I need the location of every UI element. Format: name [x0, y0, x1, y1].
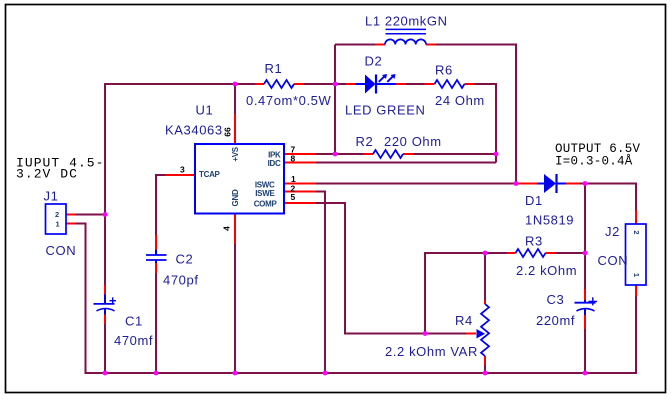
capacitor C1 bottom arc — [97, 309, 115, 311]
wire: R3 right to C3 column — [555, 252, 585, 254]
U1 pin8 stub — [284, 162, 316, 164]
resistor R2 zigzag — [373, 150, 403, 158]
node dot bus C2 — [154, 371, 159, 376]
svg-text:3: 3 — [180, 165, 185, 175]
svg-text:220mf: 220mf — [536, 313, 575, 328]
svg-text:D2: D2 — [365, 54, 383, 69]
svg-text:2.2 kOhm VAR: 2.2 kOhm VAR — [385, 344, 478, 359]
svg-text:IDC: IDC — [268, 159, 281, 168]
wire: top bus left vertical (node SW top) — [334, 45, 336, 155]
capacitor C3 top plate — [575, 302, 596, 304]
svg-text:C3: C3 — [547, 292, 565, 307]
R4 wiper arrow — [477, 329, 486, 339]
svg-text:R2: R2 — [356, 134, 374, 149]
capacitor C1 top plate — [94, 303, 115, 305]
LED D2 triangle — [365, 75, 376, 94]
J2 stubs — [635, 210, 637, 296]
node dot wiper row — [423, 331, 428, 336]
R6 stubs — [425, 83, 475, 85]
wire: R4 top connection — [484, 253, 486, 300]
svg-text:0.47om*0.5W: 0.47om*0.5W — [246, 93, 331, 108]
svg-text:KA34063: KA34063 — [165, 123, 223, 138]
connector J1 box — [46, 204, 67, 234]
R1 stubs — [255, 83, 304, 85]
inductor L1 coil — [385, 39, 426, 44]
svg-text:I=0.3-0.4Å: I=0.3-0.4Å — [555, 154, 633, 169]
wire: R1 row left segment + left vertical bus x=105 — [105, 84, 255, 285]
svg-text:2: 2 — [55, 210, 59, 219]
LED D2 cathode lead — [377, 83, 396, 85]
wire: TCAP pin3 to C2 column — [156, 175, 165, 235]
node dot bus pin2 — [323, 371, 328, 376]
wire: R6 right, corner down to pin8 row — [475, 84, 497, 163]
LED D2 cathode bar — [375, 75, 377, 94]
diode D1 triangle — [544, 174, 556, 193]
wire: pin8 IDC row — [316, 162, 496, 164]
svg-text:1: 1 — [632, 273, 641, 277]
U1 pin4 stub — [234, 214, 236, 245]
U1 pin3 stub — [165, 174, 195, 176]
diode D1 cathode lead — [557, 183, 566, 185]
wire: C3 column from D1 node — [584, 184, 586, 290]
wire: D1 cathode node to J2 corner — [580, 184, 636, 211]
wire: pin7/R2 row — [316, 153, 363, 155]
wire: R1 to D2 segment — [304, 83, 346, 85]
svg-text:ISWE: ISWE — [255, 189, 275, 198]
wire: J1 pin2 to left bus — [76, 214, 106, 216]
svg-text:C1: C1 — [125, 314, 143, 329]
wire: D2 to R6 segment — [406, 83, 425, 85]
node dot bus R4 — [483, 371, 488, 376]
svg-text:D1: D1 — [525, 193, 543, 208]
svg-text:R1: R1 — [265, 61, 283, 76]
wire: R4 bottom to bus — [484, 365, 486, 373]
connector J2 box — [626, 224, 647, 285]
node dot R1-pin6 — [233, 82, 238, 87]
svg-text:4: 4 — [222, 226, 232, 231]
node dot bus C1 — [103, 371, 108, 376]
wire: pin2 ISWE row down to bottom bus — [316, 192, 325, 374]
J1 stubs — [66, 215, 76, 224]
svg-text:1: 1 — [56, 220, 60, 229]
resistor R4 vertical zigzag — [481, 304, 489, 356]
U1 pin6 stub — [234, 114, 236, 144]
node dot J1 pin2 — [103, 212, 108, 217]
LED D2 anode lead — [356, 83, 366, 85]
wire: R2 right to x496 — [413, 153, 496, 155]
svg-text:24 Ohm: 24 Ohm — [435, 93, 485, 108]
resistor R1 zigzag — [264, 80, 294, 88]
diode D1 cathode bar — [555, 174, 557, 193]
capacitor C1 top lead — [104, 295, 106, 304]
node dot bus GND — [233, 371, 238, 376]
capacitor C2 plates — [146, 255, 167, 260]
svg-text:+VS: +VS — [231, 146, 240, 161]
node dot R1-D2 — [333, 82, 338, 87]
capacitor C3 top lead — [584, 300, 586, 302]
node dot bus C3 — [583, 371, 588, 376]
node dot pin7-R2 — [333, 152, 338, 157]
U1 pin5 stub — [284, 202, 316, 204]
svg-text:R3: R3 — [525, 234, 543, 249]
node dot D1 cathode — [583, 181, 588, 186]
wire: J1 pin1 down and bottom bus to J2 — [76, 224, 637, 374]
capacitor C3 bottom arc — [577, 309, 595, 311]
capacitor C1 bottom lead — [104, 309, 106, 315]
D2 stubs — [346, 83, 406, 85]
svg-text:LED GREEN: LED GREEN — [345, 103, 426, 118]
capacitor C3 plus — [589, 297, 598, 305]
R4 stubs — [484, 300, 486, 365]
svg-text:J1: J1 — [44, 189, 59, 204]
C1 stubs — [104, 285, 106, 324]
svg-text:470pf: 470pf — [163, 273, 199, 288]
svg-text:J2: J2 — [605, 224, 620, 239]
wire: pin1 ISWC row to switching node — [316, 183, 516, 185]
R3 stubs — [507, 252, 555, 254]
wire: pin5 COMP row down to R4 wiper row — [316, 203, 466, 334]
node dot R2-right — [494, 152, 499, 157]
svg-text:R4: R4 — [455, 313, 473, 328]
capacitor C2 top lead — [155, 250, 157, 255]
svg-text:3.2V DC: 3.2V DC — [16, 167, 78, 182]
svg-text:2.2 kOhm: 2.2 kOhm — [516, 263, 577, 278]
wire: pin6 +VS vertical upper — [234, 84, 236, 114]
svg-text:L1 220mkGN: L1 220mkGN — [365, 14, 448, 29]
R2 stubs — [363, 153, 413, 155]
capacitor C3 bottom lead — [584, 309, 586, 315]
node dot switching node — [514, 181, 519, 186]
D1 stubs — [518, 183, 580, 185]
R4 wiper stub — [466, 333, 476, 335]
svg-text:R6: R6 — [435, 63, 453, 78]
U1 pin1 stub — [284, 183, 316, 185]
node dot R3-C3 — [583, 251, 588, 256]
svg-text:U1: U1 — [196, 103, 214, 118]
resistor R3 zigzag — [516, 249, 546, 257]
LED D2 arrow 1 — [379, 76, 385, 82]
svg-text:2: 2 — [632, 230, 641, 234]
op-amp U1 IC box — [195, 144, 284, 214]
wire: C3 column lower — [584, 329, 586, 373]
U1 pin2 stub — [284, 191, 316, 193]
svg-text:CON: CON — [598, 253, 629, 268]
svg-text:COMP: COMP — [254, 200, 278, 209]
wire: C2 column lower — [155, 273, 157, 373]
U1 pin7 stub — [284, 153, 316, 155]
capacitor C1 plus — [110, 297, 117, 304]
svg-text:8: 8 — [291, 153, 296, 163]
wire: R3 row left + vertical to wiper row — [425, 253, 507, 334]
diode D1 anode lead — [537, 183, 544, 185]
capacitor C2 bottom lead — [155, 260, 157, 263]
svg-text:GND: GND — [231, 189, 240, 206]
svg-text:TCAP: TCAP — [199, 170, 221, 179]
node dot R3-R4 — [483, 251, 488, 256]
C2 stubs — [155, 235, 157, 273]
C3 stubs — [584, 289, 586, 329]
inductor L1 core bars — [386, 29, 427, 33]
svg-text:1N5819: 1N5819 — [525, 213, 574, 228]
svg-text:CON: CON — [46, 243, 77, 258]
svg-text:470mf: 470mf — [114, 333, 153, 348]
resistor R6 zigzag — [435, 80, 465, 88]
wire: C1 column lower — [104, 324, 106, 373]
svg-text:66: 66 — [223, 127, 233, 137]
wire: top bus to L1 — [335, 44, 375, 46]
L1 stubs — [375, 44, 436, 46]
svg-text:220 Ohm: 220 Ohm — [384, 134, 442, 149]
svg-text:C2: C2 — [176, 252, 194, 267]
wire: GND pin4 vertical lower — [234, 244, 236, 373]
svg-text:5: 5 — [291, 192, 296, 202]
wire: L1 right to switching node vertical — [436, 45, 516, 184]
LED D2 arrow 2 — [387, 76, 393, 82]
